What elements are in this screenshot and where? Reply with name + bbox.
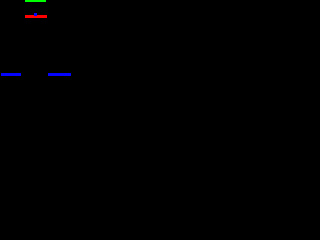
bottom-left blue bar [1,73,21,76]
blue square (marker over red bar) [34,13,37,16]
red bar (lower bar) [25,15,47,18]
bottom-right blue bar [48,73,70,76]
green bar (top health/score bar) [25,0,47,2]
